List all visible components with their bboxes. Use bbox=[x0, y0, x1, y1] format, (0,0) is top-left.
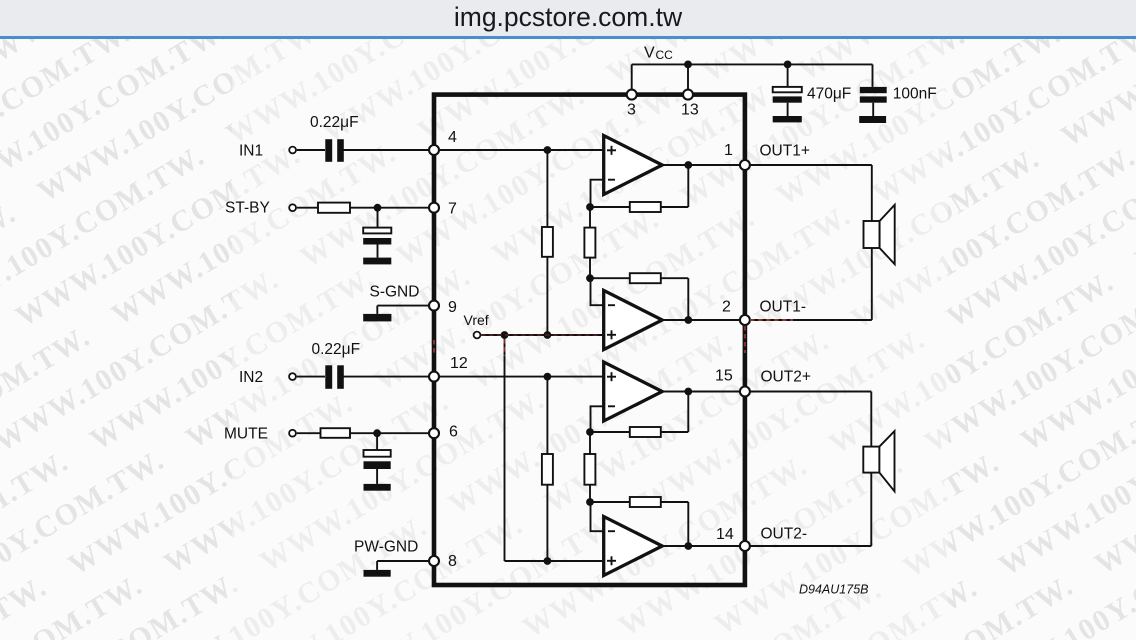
svg-text:9: 9 bbox=[448, 299, 457, 316]
svg-text:MUTE: MUTE bbox=[224, 426, 268, 443]
svg-text:3: 3 bbox=[627, 102, 636, 119]
svg-text:13: 13 bbox=[681, 102, 699, 119]
svg-text:8: 8 bbox=[448, 553, 457, 570]
svg-text:V: V bbox=[644, 45, 655, 62]
svg-text:OUT1-: OUT1- bbox=[760, 299, 807, 316]
svg-text:OUT2+: OUT2+ bbox=[761, 369, 811, 386]
svg-text:IN1: IN1 bbox=[239, 143, 263, 160]
svg-text:2: 2 bbox=[722, 299, 731, 316]
svg-text:CC: CC bbox=[656, 48, 674, 62]
svg-text:ST-BY: ST-BY bbox=[225, 200, 270, 217]
svg-text:PW-GND: PW-GND bbox=[354, 539, 418, 556]
svg-text:4: 4 bbox=[448, 129, 457, 146]
svg-text:12: 12 bbox=[450, 355, 468, 372]
svg-text:470μF: 470μF bbox=[807, 85, 851, 102]
svg-text:15: 15 bbox=[715, 368, 733, 385]
svg-text:OUT1+: OUT1+ bbox=[760, 143, 810, 160]
svg-text:OUT2-: OUT2- bbox=[761, 526, 808, 543]
svg-text:IN2: IN2 bbox=[239, 369, 263, 386]
svg-text:14: 14 bbox=[716, 526, 734, 543]
svg-text:0.22μF: 0.22μF bbox=[310, 114, 359, 131]
svg-text:D94AU175B: D94AU175B bbox=[799, 583, 869, 597]
svg-text:0.22μF: 0.22μF bbox=[312, 341, 361, 358]
svg-text:7: 7 bbox=[448, 201, 457, 218]
svg-text:1: 1 bbox=[724, 142, 733, 159]
svg-text:Vref: Vref bbox=[464, 312, 489, 328]
svg-text:S-GND: S-GND bbox=[370, 284, 420, 301]
svg-text:6: 6 bbox=[449, 424, 458, 441]
svg-text:100nF: 100nF bbox=[893, 85, 937, 102]
